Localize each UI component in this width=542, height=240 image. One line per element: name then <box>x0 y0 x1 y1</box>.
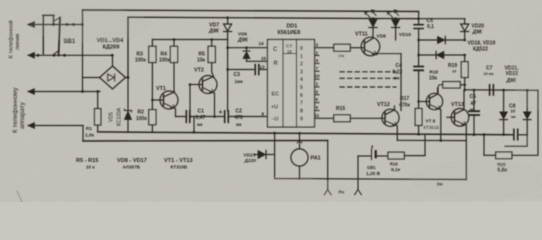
pin numbers right side <box>315 43 321 118</box>
wire: x=418.6 vertical through C4 <box>418 40 420 66</box>
scan blotches <box>30 7 542 204</box>
resistor R17 470к <box>399 96 422 134</box>
capacitor C4 0,22мк <box>393 63 424 109</box>
IC DD1 К561ИЕ8 decade counter <box>259 24 321 128</box>
resistor R1 1,0к <box>85 92 101 139</box>
wire: VD7 node down to C2 plate <box>227 70 229 112</box>
legend caption R5-R15 <box>76 158 98 170</box>
wire: riser from wire A up to top rail <box>82 10 84 25</box>
capacitor C2 470мк (polarized) <box>219 109 243 128</box>
junction dots: left section <box>81 54 129 93</box>
capacitor C8 10мк (series in rail) <box>509 104 527 140</box>
resistor R19 <box>448 55 468 90</box>
meter PA1 <box>273 132 320 179</box>
transistor VT11 <box>355 32 380 56</box>
connector fork pin 1 <box>324 141 331 195</box>
capacitor C3 1мк <box>228 65 268 85</box>
wire: second top rail 2 <box>128 17 419 78</box>
capacitor C5 0,1 <box>414 18 434 40</box>
wire: top rail drop at x=418.6 <box>418 12 420 25</box>
capacitor C1 0,47мк <box>186 85 205 128</box>
resistor R6 (base, 10к) <box>334 44 365 58</box>
wire: emitter bus y=116.5 <box>176 116 268 118</box>
wire: line wire A with left arrow <box>28 22 83 28</box>
wire: collector wire y=90 to right edge <box>465 89 538 92</box>
junction dots: oscillator <box>151 16 397 133</box>
node: to telephone line (vertical label) <box>8 20 22 58</box>
wire: collector bus down to VT12 <box>400 54 402 111</box>
connector fork pin 2 <box>339 156 362 196</box>
wire: output 9 (pin 11) to R15 <box>315 117 334 119</box>
wire: VD19 row y=55 <box>419 54 465 56</box>
resistor R5 10к <box>197 40 215 77</box>
wire: VD18 row y=40 <box>419 39 465 41</box>
wire: dashed rows (omitted stages) <box>340 72 396 87</box>
resistor R15 <box>334 106 385 122</box>
wire: VD16 cathode stub <box>395 34 397 40</box>
wire: bridge plus rail drop x=128 <box>126 17 129 132</box>
LED VD8 АЛ307Б <box>365 10 387 40</box>
resistor R3 100к <box>135 40 156 110</box>
diode VD18 КД522 <box>438 36 496 52</box>
junction dots: right section <box>417 17 528 141</box>
battery GB1 1,25 В <box>358 145 388 177</box>
switch SB1 <box>37 15 84 56</box>
legend caption VD8-VD17 <box>117 158 147 170</box>
wire: output 0 (pin 3) to base resistor <box>315 47 334 49</box>
diode VD23 Д220 <box>244 151 275 165</box>
zener VD5 КС133А <box>109 107 132 126</box>
LED VD16 АЛ307Б <box>387 10 411 38</box>
wire: top supply rail 1 <box>83 10 419 12</box>
diode VD6 Д9К (reset network) <box>237 32 268 62</box>
resistor R16 9,1к <box>388 135 425 174</box>
output digits 0..9 <box>300 46 303 122</box>
wire: to-set wire D corner down to lower bus B <box>82 126 84 142</box>
transistor VT12 <box>377 102 399 140</box>
wire: clock input feed to pin 14 <box>228 47 268 49</box>
wire: lower bus B <box>83 140 328 143</box>
transistor VT1 <box>152 86 178 117</box>
legend caption VT1-VT13 <box>164 158 193 170</box>
resistor R4 100к <box>159 40 178 92</box>
transistor VT2 <box>190 68 217 117</box>
wire: bottom-right loop with R20 6,8к <box>484 90 538 173</box>
wire: to-set wire C with left arrow <box>28 89 100 95</box>
junction dots: VD6/C3 node <box>226 46 248 70</box>
wire: R3/R4/R5 top feed from VD7 node <box>152 39 227 41</box>
wire: bottom return bus y=179 <box>275 133 467 179</box>
diode VD19 КД522 <box>436 51 444 58</box>
resistor R2 100к <box>136 110 156 133</box>
diode VD21 Д9К <box>500 66 519 135</box>
wire: to-set wire D with left arrow <box>28 123 83 129</box>
capacitor C6 47мк <box>469 90 479 134</box>
wire: emitter loop y=140 <box>397 140 466 179</box>
diode VD7 Д9К <box>208 18 232 70</box>
pin numbers left side <box>259 41 267 116</box>
output stubs rows 1..8 <box>315 56 320 111</box>
wire: VT11 emitter to collector bus <box>377 54 401 55</box>
scratch artifact <box>17 191 22 202</box>
wire: bus drop to ground rail <box>193 117 195 133</box>
diode VD22 Д9К <box>523 90 531 135</box>
wire: line wire B with left arrow <box>28 52 113 58</box>
node: to telephone set (vertical label) <box>12 87 26 133</box>
capacitor C7 10мк <box>484 66 494 96</box>
diode bridge VD1...VD4 КД269 <box>83 25 126 92</box>
wire: main ground rail A <box>98 132 514 135</box>
wire: branch to VD20 <box>419 18 465 20</box>
diode VD20 Д9К <box>461 19 485 40</box>
transistor VT13 <box>447 90 469 141</box>
transistor VT7 КТ361Б (mid) <box>421 88 443 141</box>
resistor R18 10к <box>429 70 465 93</box>
